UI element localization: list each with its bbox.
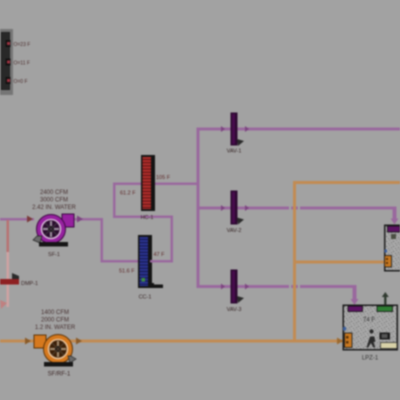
svg-text:51.6 F: 51.6 F (119, 269, 135, 275)
svg-text:LPZ-1: LPZ-1 (362, 356, 379, 362)
svg-text:VAV-1: VAV-1 (227, 149, 242, 155)
wire: horizontal into CC-1 left (101, 260, 140, 263)
svg-text:CC-1: CC-1 (139, 295, 152, 301)
wire: VAV-2 drop into zone LPZ-2 (393, 207, 397, 221)
wire: outside-air riser upper segment (7, 220, 10, 253)
VAV box VAV-2 damper bar (231, 191, 245, 225)
wire: VAV-3 branch row (197, 285, 357, 288)
svg-text:61.2 F: 61.2 F (120, 191, 136, 197)
wire: return row through fan RF-1 to zone LPZ-1 (0, 340, 345, 343)
port 2 on OA block (6, 59, 11, 66)
node: arrows on VAV-2 row (221, 205, 249, 211)
VAV box VAV-1 damper bar (231, 113, 245, 147)
cooling coil CC-1 (138, 235, 163, 288)
wire: supply fan outlet to down-leg (70, 218, 103, 221)
exhaust stub on zone LPZ-1 (382, 292, 389, 305)
wire: return air top row to right edge (293, 181, 400, 184)
node: arrow at RF-1 outlet left (25, 338, 31, 345)
wire: HC-1 outlet to supply trunk (152, 183, 199, 186)
fan SF-1 (supply fan) (33, 214, 74, 247)
svg-text:VAV-3: VAV-3 (227, 307, 242, 313)
damper DMP-1 bar (0, 279, 19, 285)
zone LPZ-2 (cut at right edge) (384, 225, 400, 272)
wire: outside-air riser lower segment (7, 252, 10, 307)
svg-text:O=0 F: O=0 F (14, 79, 28, 85)
wire: return air trunk riser (293, 181, 296, 342)
port 3 on OA block (6, 77, 11, 84)
svg-text:2000 CFM: 2000 CFM (41, 318, 69, 324)
wire: horizontal into HC-1 left (113, 183, 142, 186)
wire: VAV-1 branch row (197, 128, 400, 131)
fan RF-1 (return fan) (34, 335, 76, 367)
wire: VAV-2 branch row (197, 207, 396, 210)
wire: outside-air horizontal inlet to fan SF-1 (0, 218, 34, 221)
VAV box VAV-3 damper bar (231, 270, 245, 304)
svg-text:105 F: 105 F (156, 175, 171, 181)
wire: riser up from CC row to crossover (171, 216, 174, 262)
wire: supply trunk riser (197, 128, 200, 288)
wire: VAV-3 drop into zone LPZ-1 (353, 285, 357, 302)
svg-text:VAV-2: VAV-2 (227, 228, 242, 234)
svg-text:SF-1: SF-1 (48, 252, 60, 258)
outside-air source block (weather ports) (0, 29, 13, 95)
svg-text:1400 CFM: 1400 CFM (41, 310, 69, 316)
svg-text:3000 CFM: 3000 CFM (40, 198, 68, 204)
svg-text:2.42 IN. WATER: 2.42 IN. WATER (32, 205, 76, 211)
svg-text:74 F: 74 F (363, 318, 375, 324)
svg-text:O=11 F: O=11 F (14, 61, 30, 67)
wire: crossover back left to HC riser (113, 216, 173, 219)
zone LPZ-1 (343, 305, 399, 351)
node: return arrow at zone LPZ-1 (337, 338, 343, 345)
svg-text:DMP-1: DMP-1 (21, 281, 38, 287)
node: arrow into zone LPZ-1 (351, 299, 359, 305)
node: arrow at SF-1 inlet (27, 216, 33, 223)
node: OA inlet arrow at line end (0, 300, 7, 309)
svg-text:SF/RF-1: SF/RF-1 (48, 372, 71, 378)
node: arrows on VAV-3 row (221, 284, 249, 290)
wire: return branch from zone LPZ-2 (293, 261, 385, 264)
port 1 on OA block (6, 40, 11, 47)
heating coil HC-1 (141, 155, 155, 211)
svg-text:O=23 F: O=23 F (14, 42, 31, 48)
svg-text:1.2 IN. WATER: 1.2 IN. WATER (35, 325, 76, 331)
node: arrows on VAV-1 row (221, 126, 249, 132)
wire: return trunk over crossings (293, 204, 296, 212)
wire: riser up into HC-1 row (113, 183, 116, 218)
damper DMP-1 actuator flag (12, 273, 19, 279)
svg-text:47 F: 47 F (154, 252, 166, 258)
wire: crossover gap VAV-3 row at return trunk (289, 284, 291, 289)
node: arrow into zone LPZ-2 (391, 219, 399, 225)
node: arrow at SF-1 outlet (77, 216, 83, 223)
wire: vertical down-leg to cooling coil row (101, 218, 104, 262)
wire: CC-1 outlet to riser (150, 260, 173, 263)
svg-text:HC-1: HC-1 (141, 215, 154, 221)
wire: crossover gap VAV-2 row at return trunk (289, 206, 291, 211)
node: arrow at RF-1 inlet right (76, 338, 82, 345)
svg-text:2400 CFM: 2400 CFM (40, 190, 68, 196)
